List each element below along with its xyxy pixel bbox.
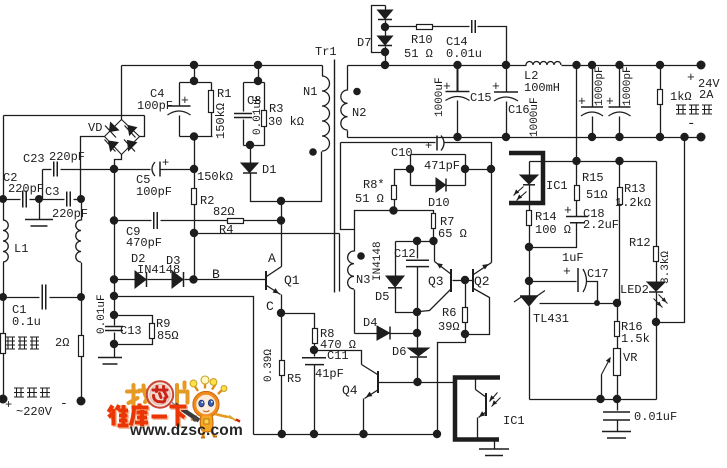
terminal dot output plus <box>697 61 706 70</box>
TL431 <box>520 295 538 297</box>
node dot C3 right <box>77 195 85 203</box>
wire oscillator node <box>396 241 434 243</box>
label 输入端 and 220V <box>14 388 24 397</box>
capacitor C17 <box>530 281 577 283</box>
diode D1 <box>250 146 252 164</box>
node dot VR bottom rail <box>613 395 621 403</box>
svg-text:IC1: IC1 <box>546 179 568 193</box>
svg-text:1000uF: 1000uF <box>434 77 446 117</box>
svg-text:D4: D4 <box>363 316 377 330</box>
node dot C13 top <box>110 311 118 319</box>
transistor Q4 <box>315 351 362 365</box>
node dot C16 bottom <box>502 133 510 141</box>
svg-text:100pF: 100pF <box>137 99 173 113</box>
resistor R12 column <box>656 162 658 247</box>
svg-text:+: + <box>687 70 695 85</box>
node dot C23-bridge-C5 junction <box>110 165 118 173</box>
capacitor C10 series wire <box>341 142 436 144</box>
wire primary rail <box>122 65 323 67</box>
wire stub right of 233 line <box>339 234 341 292</box>
wire R15 column <box>576 66 578 186</box>
svg-text:100pF: 100pF <box>136 185 172 199</box>
svg-text:+: + <box>425 139 432 153</box>
node dot 161 R13 <box>615 157 623 165</box>
node dot R4 right on Q1 column <box>277 216 285 224</box>
wire C4 node down to C5 node <box>194 137 196 189</box>
wire bridge+ up to primary rail <box>121 66 123 120</box>
node dot rail 1k <box>656 61 664 69</box>
svg-text:471pF: 471pF <box>424 159 460 173</box>
svg-text:51Ω: 51Ω <box>586 188 608 202</box>
wire bridge bottom corner to node <box>115 155 122 170</box>
wire D6 node to IC1 <box>418 382 456 384</box>
wire LED anode 161 <box>530 161 657 163</box>
svg-text:C13: C13 <box>120 324 142 338</box>
svg-text:R10: R10 <box>411 33 433 47</box>
node dot C19 bottom <box>588 133 596 141</box>
svg-text:3.3kΩ: 3.3kΩ <box>660 251 672 284</box>
svg-text:1.5k: 1.5k <box>621 332 650 346</box>
svg-text:C12: C12 <box>394 247 416 261</box>
node dot R6 bottom <box>461 330 469 338</box>
node dot 161 wire R15 <box>572 157 580 165</box>
wire feedback bottom rail <box>530 399 657 401</box>
node dot D7 bottom <box>381 48 389 56</box>
optocoupler IC1 output box <box>455 378 500 440</box>
resistor R7 <box>432 214 436 229</box>
resistor R2 <box>192 189 197 205</box>
wire D1 node to N1 bottom <box>282 152 322 202</box>
capacitor C20 <box>619 66 621 107</box>
svg-text:TL431: TL431 <box>533 312 569 326</box>
svg-text:470pF: 470pF <box>126 236 162 250</box>
ground at C13 <box>98 358 122 365</box>
resistor R14 <box>527 211 532 226</box>
svg-text:1000pF: 1000pF <box>622 66 634 106</box>
resistor 1kohm <box>660 66 662 90</box>
node dot rail right column <box>433 430 441 438</box>
node dot rail C16 <box>502 61 510 69</box>
transformer Tr1 primary N1 <box>322 66 324 77</box>
wire bridge left corner to AC column <box>81 137 105 200</box>
node dot rail Q4 <box>359 430 367 438</box>
capacitor C3 <box>40 199 65 201</box>
svg-text:A: A <box>268 251 276 266</box>
svg-text:N1: N1 <box>303 85 317 99</box>
node dot rail D7 <box>381 61 389 69</box>
svg-text:D6: D6 <box>392 345 406 359</box>
transistor Q2 <box>472 269 474 292</box>
node dot B node <box>189 275 197 283</box>
svg-text:R3: R3 <box>269 102 283 116</box>
wire R2 node to Q1 collector column <box>195 233 340 235</box>
node small dot C17 to ref wire <box>594 300 600 306</box>
svg-text:150kΩ: 150kΩ <box>197 170 233 184</box>
node dot rail at C8 <box>254 61 262 69</box>
svg-text:D5: D5 <box>375 290 389 304</box>
svg-text:IN4148: IN4148 <box>372 241 384 281</box>
svg-text:Q2: Q2 <box>474 274 490 289</box>
svg-text:www.dzsc.com: www.dzsc.com <box>129 422 243 439</box>
capacitor C9 <box>115 220 152 222</box>
diode D3 <box>148 279 173 281</box>
node dot C12 top <box>413 237 421 245</box>
capacitor C16 <box>506 66 508 92</box>
svg-text:-: - <box>60 396 68 411</box>
resistor R10 <box>386 26 417 28</box>
svg-text:R5: R5 <box>287 372 301 386</box>
node dot rail C15 <box>453 61 461 69</box>
terminal dot output minus <box>697 133 706 142</box>
capacitor C19 <box>592 66 594 107</box>
node dot D5 C12 bottom <box>413 308 421 316</box>
node dot R14 C18 junction <box>525 243 533 251</box>
svg-text:0.1u: 0.1u <box>12 315 41 329</box>
svg-text:220pF: 220pF <box>52 207 88 221</box>
svg-text:1000pF: 1000pF <box>594 66 606 106</box>
node dot Q2 Q3 base <box>461 276 469 284</box>
node dot C9 left <box>110 216 118 224</box>
svg-text:C3: C3 <box>45 185 59 199</box>
transistor Q3 <box>450 269 452 292</box>
capacitor C11 <box>314 351 316 357</box>
resistor R15 <box>575 186 580 201</box>
svg-text:+: + <box>578 94 586 109</box>
svg-text:0.01u: 0.01u <box>446 47 482 61</box>
capacitor C8 parallel R3 loop <box>258 66 260 83</box>
svg-text:R8*: R8* <box>363 178 385 192</box>
svg-text:C15: C15 <box>470 91 492 105</box>
node dot C15 bottom <box>453 133 461 141</box>
diode D4 <box>355 333 378 335</box>
winding N3 <box>348 251 354 289</box>
capacitor C1 <box>4 297 40 299</box>
resistor R1 <box>211 83 213 91</box>
svg-text:150kΩ: 150kΩ <box>214 103 228 139</box>
svg-text:IC1: IC1 <box>503 414 525 428</box>
svg-text:L1: L1 <box>14 242 28 256</box>
svg-text:+: + <box>181 93 189 108</box>
wire AC top from left column to bridge <box>4 115 145 117</box>
svg-text:65 Ω: 65 Ω <box>438 227 467 241</box>
diode D6 <box>408 348 429 356</box>
wire loop right to C10 column <box>466 169 492 171</box>
wire LED2 node to rail and gnd rail <box>656 323 658 400</box>
ground at C3 node <box>39 200 41 220</box>
node dot 1k bottom <box>656 133 664 141</box>
wire node column 114 <box>114 170 116 297</box>
node dot VR wiper rail <box>596 395 604 403</box>
svg-text:IN4148: IN4148 <box>137 263 180 277</box>
svg-text:+: + <box>492 79 500 94</box>
svg-text:Tr1: Tr1 <box>315 45 337 59</box>
node dot rail at C4 <box>190 61 198 69</box>
svg-text:R13: R13 <box>624 182 646 196</box>
svg-text:D7: D7 <box>357 36 371 50</box>
capacitor C4 parallel R1 loop <box>194 66 196 83</box>
bridge diode lower-right <box>128 141 137 151</box>
svg-text:2Ω: 2Ω <box>55 336 69 350</box>
wire R8star node to N3 and R7 <box>355 211 394 252</box>
capacitor 471pF parallel D10 loop <box>411 154 466 156</box>
node dot C17 left <box>525 277 533 285</box>
svg-text:1uF: 1uF <box>562 251 584 265</box>
resistor R3 <box>264 83 266 111</box>
phase dot N3 <box>357 252 365 260</box>
node dot rail R5 <box>278 430 286 438</box>
svg-text:R14: R14 <box>535 210 557 224</box>
wire TL431 cathode <box>529 248 531 297</box>
light arrows LED2 <box>659 295 668 304</box>
wire R6 bottom to rail column <box>438 335 466 435</box>
svg-text:220pF: 220pF <box>8 182 44 196</box>
svg-text:+: + <box>564 203 572 218</box>
node dot C20 bottom <box>615 133 623 141</box>
resistor R6 <box>465 281 467 308</box>
svg-text:220pF: 220pF <box>49 150 85 164</box>
node dot rail C20 <box>615 61 623 69</box>
wire secondary rail <box>348 65 527 67</box>
capacitor C5 <box>160 169 195 171</box>
watermark logo <box>109 376 243 439</box>
bottom rail <box>254 434 438 436</box>
svg-text:R1: R1 <box>217 87 231 101</box>
node dot C13 bottom <box>110 340 118 348</box>
svg-text:Q3: Q3 <box>428 274 444 289</box>
svg-text:B: B <box>212 267 220 282</box>
node dot Q1 emitter node <box>277 309 285 317</box>
node dot rail C11 <box>310 430 318 438</box>
resistor R4 <box>228 219 244 224</box>
inductor L1 left winding <box>3 220 8 262</box>
node dot rail R15col <box>572 61 580 69</box>
node dot C1 left <box>0 293 7 301</box>
capacitor 0.01uF output <box>617 400 619 411</box>
svg-text:D10: D10 <box>428 196 450 210</box>
transistor Q1 <box>265 271 267 290</box>
transformer core line 2 <box>341 143 355 230</box>
svg-text:82Ω: 82Ω <box>213 205 235 219</box>
svg-text:Q4: Q4 <box>342 383 358 398</box>
svg-text:0.39Ω: 0.39Ω <box>263 349 275 382</box>
svg-text:0.01uF: 0.01uF <box>96 294 108 334</box>
transformer core line <box>334 60 336 293</box>
svg-text:41pF: 41pF <box>315 367 344 381</box>
LED IC1 <box>529 162 531 176</box>
wire secondary ground rail <box>348 137 702 139</box>
bridge rectifier VD diamond <box>105 120 140 155</box>
svg-text:+: + <box>606 94 614 109</box>
node dot C2-C3-ground <box>35 195 43 203</box>
node dot gnd rail feedback <box>680 133 688 141</box>
wire left input column upper <box>3 116 5 200</box>
resistor R13 <box>618 188 623 205</box>
svg-text:N3: N3 <box>356 273 370 287</box>
node dot D6 bottom <box>413 378 421 386</box>
svg-text:Q1: Q1 <box>284 273 300 288</box>
diode D5 branch <box>395 242 397 277</box>
svg-text:1.2kΩ: 1.2kΩ <box>615 196 651 210</box>
LED2 <box>647 282 665 291</box>
diode D2 <box>115 279 136 281</box>
svg-text:2A: 2A <box>699 88 714 102</box>
capacitor C15 <box>457 66 459 92</box>
svg-text:30 kΩ: 30 kΩ <box>268 115 304 129</box>
wire loop node to bottom rail <box>115 297 254 435</box>
node dot D7 mid <box>381 23 389 31</box>
node dot LED2 bottom <box>652 318 660 326</box>
resistor 2ohm <box>81 298 83 336</box>
svg-text:85Ω: 85Ω <box>157 329 179 343</box>
svg-text:R15: R15 <box>582 171 604 185</box>
capacitor C12 <box>417 242 419 259</box>
svg-text:LED2: LED2 <box>620 283 649 297</box>
node dot loop left <box>406 165 414 173</box>
resistor R16 <box>617 304 619 322</box>
svg-text:~220V: ~220V <box>16 405 53 419</box>
node dot C1 right <box>77 293 85 301</box>
node dot R8star bottom <box>389 206 397 214</box>
svg-text:C16: C16 <box>508 103 530 117</box>
fuse 保险管 <box>3 298 5 334</box>
node dot C10 column <box>487 165 495 173</box>
svg-text:C: C <box>266 299 274 314</box>
svg-text:1000uF: 1000uF <box>529 97 541 137</box>
svg-text:VR: VR <box>623 351 637 365</box>
capacitor C2 <box>4 199 21 201</box>
terminal dot input N <box>77 397 86 406</box>
wire TL431 ref to divider <box>540 303 620 305</box>
potentiometer VR <box>614 349 621 376</box>
svg-text:100 Ω: 100 Ω <box>535 223 571 237</box>
node dot ref divider <box>613 299 621 307</box>
node dot R2 bottom at 233 <box>190 229 198 237</box>
VR wiper arrow <box>602 358 611 375</box>
svg-text:51 Ω: 51 Ω <box>355 192 384 206</box>
svg-text:R6: R6 <box>442 306 456 320</box>
svg-text:2.2uF: 2.2uF <box>583 218 619 232</box>
node dot D4 right <box>413 329 421 337</box>
svg-text:51 Ω: 51 Ω <box>404 47 433 61</box>
node dot at 296 wire <box>110 292 118 300</box>
svg-text:D1: D1 <box>262 163 276 177</box>
node dot D2 left <box>110 275 118 283</box>
svg-text:R4: R4 <box>219 223 233 237</box>
node dot C4 loop bottom <box>190 132 198 140</box>
ground IC1 <box>494 440 496 450</box>
svg-text:+: + <box>563 264 571 279</box>
resistor R9 <box>150 324 155 339</box>
node dot left column at C2 <box>0 195 7 203</box>
node dot C8 loop bottom <box>246 141 254 149</box>
transformer secondary N2 <box>347 66 349 91</box>
node dot rail C19 <box>588 61 596 69</box>
svg-text:39Ω: 39Ω <box>438 320 460 334</box>
inductor L2 <box>526 62 561 65</box>
svg-text:VD: VD <box>88 121 102 135</box>
inductor L1 right winding <box>76 220 81 262</box>
svg-text:N2: N2 <box>352 106 366 120</box>
terminal dot input L <box>0 395 8 404</box>
resistor R5 <box>281 314 283 361</box>
svg-text:+: + <box>5 398 12 412</box>
node dot R8 bottom C11 top <box>310 346 318 354</box>
resistor R8star <box>395 170 411 186</box>
svg-text:100mH: 100mH <box>524 81 560 95</box>
phase dot N1 <box>309 148 317 156</box>
resistor R8 <box>282 314 315 329</box>
node dot R7 bottom <box>429 237 437 245</box>
svg-text:0.01uF: 0.01uF <box>634 410 677 424</box>
wire Q4 base to D6 node <box>379 382 418 384</box>
capacitor C13 parallel R9 <box>114 297 116 326</box>
light arrows IC1 LED <box>514 187 524 196</box>
bridge diode upper-right <box>128 126 137 136</box>
svg-text:C10: C10 <box>391 146 413 160</box>
capacitor C14 <box>472 20 476 33</box>
svg-text:-: - <box>687 116 695 132</box>
bridge diode upper-left <box>110 123 119 132</box>
node dot C4 loop top <box>190 77 198 85</box>
svg-text:R12: R12 <box>629 236 651 250</box>
bridge diode lower-left <box>109 141 119 151</box>
label 保险管 <box>6 337 15 349</box>
wire bridge right corner drop <box>140 116 145 137</box>
node dot at C5 wire <box>190 165 198 173</box>
node dot loop right <box>461 165 469 173</box>
svg-text:C23: C23 <box>23 152 45 166</box>
node dot D1-N1 junction <box>277 197 285 205</box>
wire R13 column <box>619 162 621 188</box>
svg-text:C17: C17 <box>587 267 609 281</box>
diode D7 pair <box>372 6 386 53</box>
svg-text:+: + <box>162 156 169 170</box>
phototransistor IC1 <box>475 378 477 390</box>
light arrows IC1 <box>490 393 498 402</box>
optocoupler IC1 LED box <box>509 153 543 203</box>
node dot C8 loop top <box>254 77 262 85</box>
capacitor C18 <box>566 217 588 223</box>
capacitor C23 <box>43 169 52 171</box>
svg-text:1kΩ: 1kΩ <box>670 90 692 104</box>
phase dot N2 <box>353 88 361 96</box>
